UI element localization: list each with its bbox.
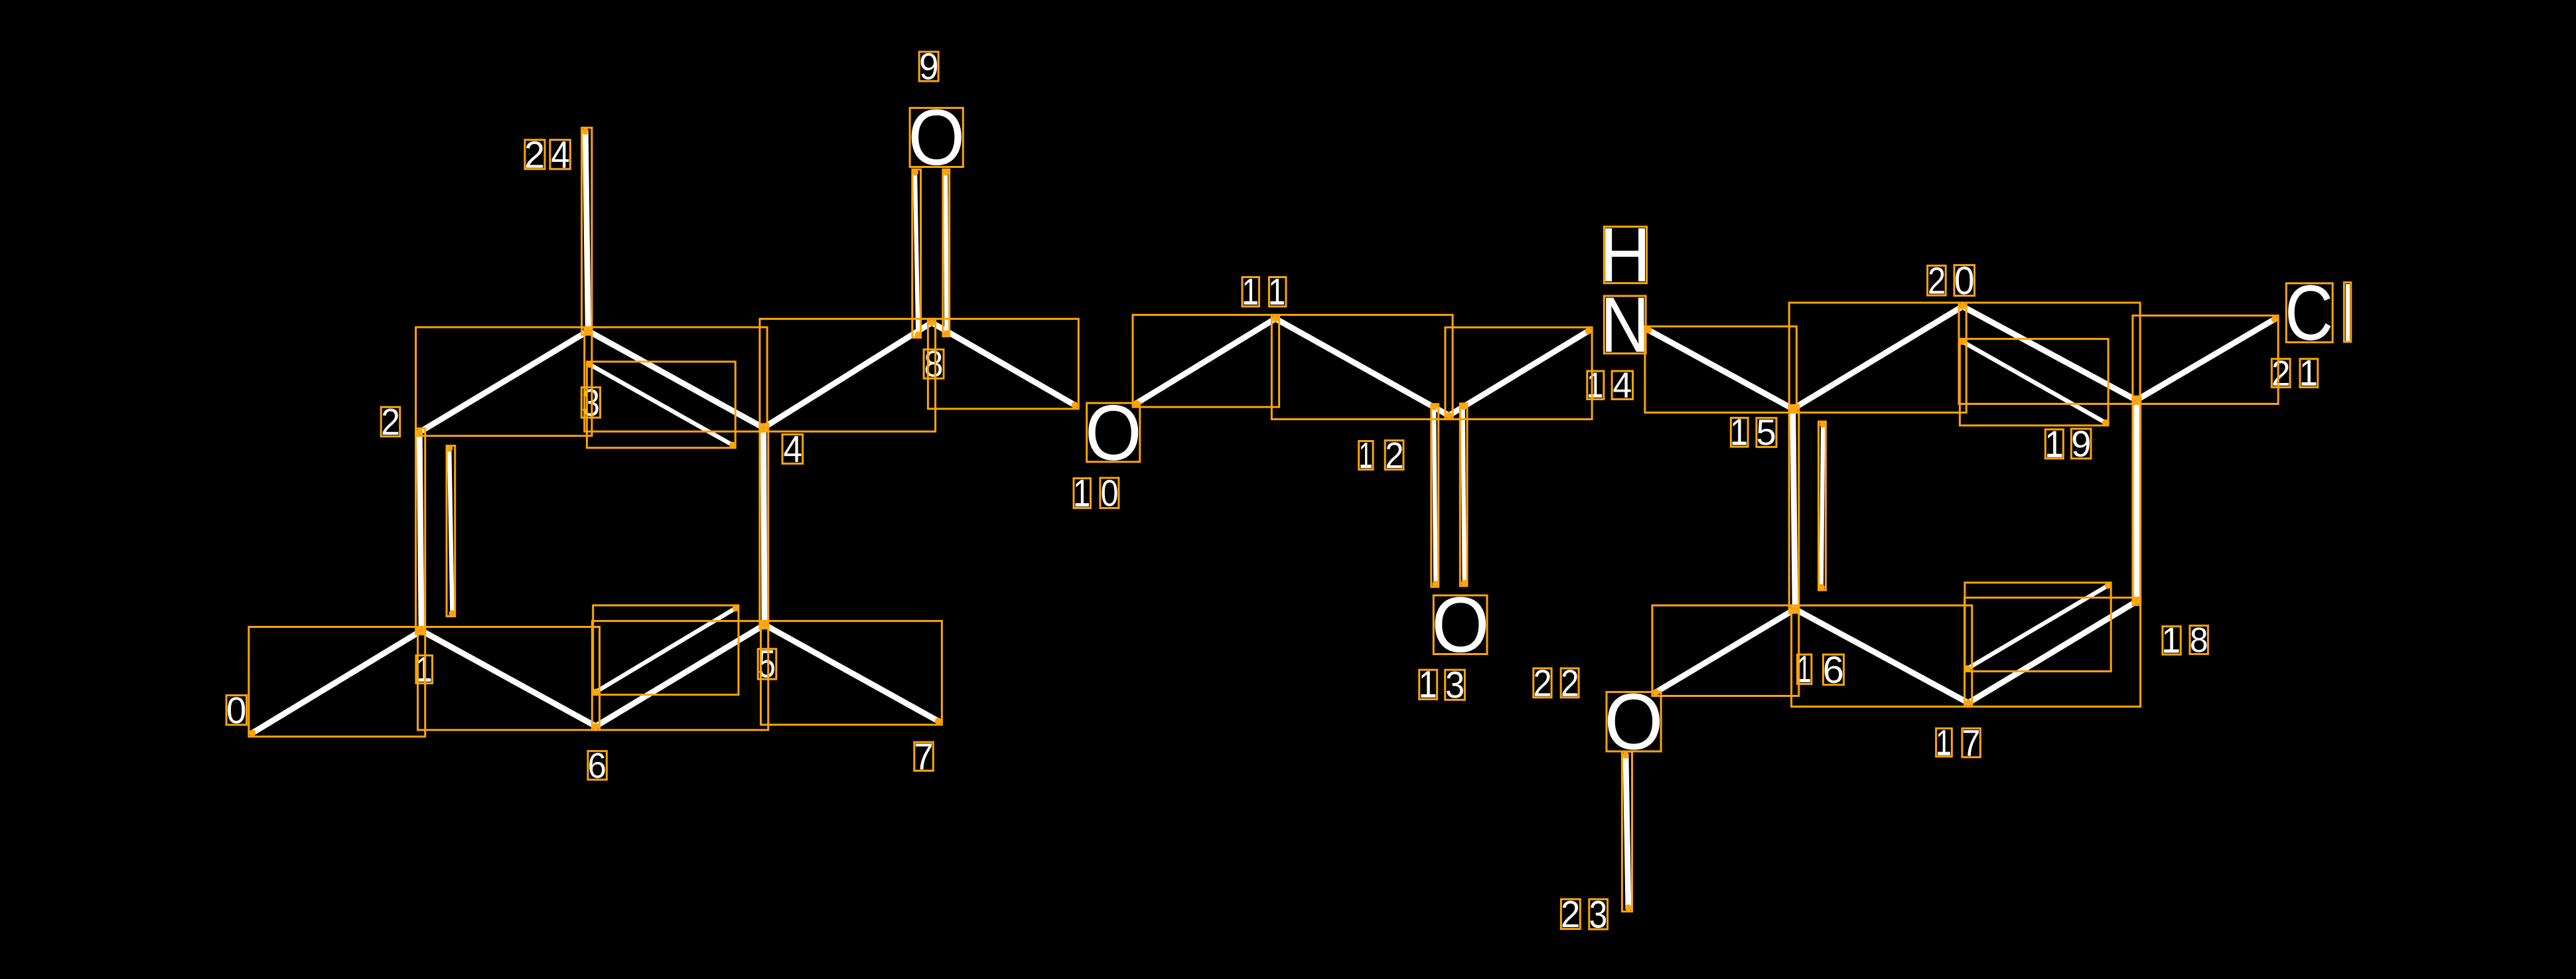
atom label O9 — [912, 110, 962, 166]
box index label 22 digit 2b — [1561, 668, 1579, 698]
box index label 19 digit 9 — [2071, 429, 2091, 459]
double bond C12=O13 line a — [1434, 407, 1436, 584]
double bond C8=O9 line b — [946, 173, 946, 334]
bbox bond C3-C24 — [582, 127, 592, 335]
aromatic inner line C3=C4 — [590, 364, 733, 445]
bond C20-C15 — [1793, 307, 1963, 409]
box index label 10 digit 0 — [1100, 478, 1119, 508]
bbox bond C19-Cl21 — [2133, 315, 2278, 404]
box index label 4 — [782, 435, 803, 464]
index label 21 digit 1 — [2302, 360, 2317, 386]
bond C5-C6 — [596, 625, 764, 726]
bond C4-C8 — [764, 323, 932, 428]
bond C16-O22 — [1656, 609, 1796, 692]
bond C3-C4 — [588, 331, 763, 428]
index label 15 digit 5 — [1758, 419, 1775, 445]
box index label 11 digit 1b — [1269, 277, 1286, 307]
index label 23 digit 3 — [1591, 901, 1607, 928]
index label 6 — [589, 753, 605, 778]
box index label 11 digit 1a — [1242, 277, 1259, 307]
index label 10 digit 1 — [1076, 480, 1090, 506]
index label 21 digit 2 — [2273, 360, 2289, 386]
index label 24 digit 4 — [551, 141, 569, 168]
bond C5-C7 — [764, 625, 938, 721]
index label 4 — [784, 436, 802, 462]
atom label C of Cl21 — [2288, 285, 2330, 340]
bbox bond C0-C1 — [249, 627, 425, 737]
index label 22 digit 2b — [1563, 670, 1578, 696]
index label 12 digit 2 — [1387, 442, 1402, 468]
box index label 14 digit 1 — [1587, 371, 1604, 400]
aromatic inner line C1=C2 — [449, 449, 452, 614]
box index label 18 digit 8 — [2190, 626, 2208, 654]
index label 19 digit 1 — [2047, 431, 2062, 457]
bond C16-C17 — [1795, 609, 1968, 703]
bbox aromatic inner line C5=C6 — [593, 605, 739, 695]
index label 10 digit 0 — [1102, 480, 1117, 506]
bbox double bond C8=O9 line a — [912, 169, 921, 337]
box index label 17 digit 1 — [1936, 728, 1952, 756]
index label 14 digit 1 — [1589, 372, 1602, 398]
bbox bond C5-C7 — [761, 621, 942, 725]
bbox bond O10-C11 — [1133, 315, 1279, 407]
index label 11 digit 1b — [1271, 279, 1285, 305]
bond N14-C15 — [1649, 330, 1793, 409]
box index label 20 digit 2 — [1928, 265, 1946, 295]
box index label 14 digit 4 — [1612, 371, 1633, 400]
bbox bond C3-C4 — [585, 327, 767, 431]
atom label O13 — [1435, 597, 1486, 652]
bbox bond C20-C15 — [1789, 303, 1966, 413]
bbox double bond C8=O9 line b — [943, 169, 950, 336]
bbox bond C1-C2 — [416, 429, 425, 635]
bbox aromatic inner line C1=C2 — [447, 446, 455, 617]
bbox aromatic inner line C17=C18 — [1965, 583, 2111, 672]
index label 18 digit 8 — [2191, 627, 2206, 652]
atom label N of HN14 — [1606, 298, 1644, 352]
bbox bond C6-C1 — [418, 627, 600, 730]
box index label 12 digit 1 — [1359, 441, 1373, 470]
bbox bond C5-C6 — [592, 621, 768, 730]
box index label 7 — [914, 742, 934, 771]
box atom label H of HN14 — [1604, 227, 1646, 283]
box index label 15 digit 1 — [1731, 418, 1748, 447]
bond C0-C1 — [253, 631, 422, 733]
box index label 5 — [758, 649, 776, 680]
bbox bond C16-C17 — [1792, 605, 1972, 707]
box index label 22 digit 2a — [1534, 668, 1551, 698]
atom label O10 — [1088, 405, 1138, 461]
box index label 24 digit 4 — [550, 140, 570, 169]
bbox bond C15-C16 — [1789, 405, 1799, 613]
bbox bond C4-C5 — [760, 424, 768, 629]
index label 16 digit 6 — [1825, 656, 1843, 684]
index label 17 digit 7 — [1964, 730, 1979, 756]
index label 5 — [759, 650, 774, 678]
atom label O22 — [1608, 694, 1660, 750]
bbox bond C2-C3 — [416, 327, 592, 436]
bond C3-C24 — [585, 131, 588, 331]
bond C4-C5 — [764, 428, 765, 625]
bond C15-C16 — [1793, 409, 1795, 609]
atom label H of HN14 — [1605, 228, 1645, 281]
bond C1-C2 — [419, 432, 421, 631]
box index label 21 digit 2 — [2271, 359, 2290, 388]
box index label 21 digit 1 — [2300, 359, 2318, 388]
atom endpoint dots — [250, 128, 2278, 911]
aromatic inner line C19=C20 — [1963, 342, 2106, 423]
bond C11-C12 — [1275, 319, 1449, 415]
index label 0 — [228, 697, 245, 723]
index label 22 digit 2a — [1535, 670, 1550, 696]
aromatic inner line C17=C18 — [1968, 585, 2108, 668]
box index label 12 digit 2 — [1385, 441, 1403, 470]
box atom label C of Cl21 — [2286, 283, 2332, 342]
box index label 2 — [381, 407, 400, 436]
box index label 24 digit 2 — [525, 140, 545, 169]
index label 12 digit 1 — [1360, 443, 1371, 468]
bbox double bond C12=O13 line b — [1460, 404, 1467, 586]
index label 15 digit 1 — [1733, 419, 1747, 445]
index label 2 — [383, 409, 399, 435]
index label 13 digit 1 — [1421, 671, 1435, 698]
index label 3 — [583, 389, 599, 416]
bbox bond N14-C15 — [1645, 327, 1797, 413]
aromatic inner line C15=C16 — [1822, 424, 1824, 587]
index label 13 digit 3 — [1447, 672, 1463, 698]
box atom label O13 — [1433, 595, 1487, 654]
box index label 3 — [581, 388, 600, 418]
box index label 19 digit 1 — [2045, 429, 2063, 459]
bbox bond C4-C8 — [760, 319, 936, 431]
index label 17 digit 1 — [1938, 730, 1950, 755]
bbox bond C8-O10 — [928, 319, 1078, 409]
bbox bond C19-C20 — [1959, 303, 2140, 404]
box atom label N of HN14 — [1604, 296, 1646, 354]
bbox aromatic inner line C3=C4 — [587, 362, 735, 448]
index label 11 digit 1a — [1244, 279, 1258, 305]
bond C18-C19 — [2133, 400, 2139, 601]
double bond C12=O13 line b — [1463, 406, 1465, 583]
bbox bond C16-O22 — [1652, 605, 1799, 696]
bond O22-C23 — [1626, 755, 1628, 908]
bond C19-Cl21 — [2137, 319, 2275, 400]
bbox aromatic inner line C19=C20 — [1960, 339, 2108, 425]
box atom label l of Cl21 — [2344, 283, 2350, 342]
bond C8-O10 — [932, 323, 1075, 405]
bond C19-C20 — [1963, 307, 2137, 400]
bond C17-C18 — [1968, 601, 2137, 703]
bbox bond C11-C12 — [1271, 315, 1453, 419]
box atom label O9 — [910, 108, 963, 167]
bond C12-N14 — [1449, 331, 1589, 415]
box index label 16 digit 6 — [1824, 654, 1844, 685]
box index label 8 — [924, 350, 944, 379]
box index label 15 digit 5 — [1756, 418, 1776, 447]
bond C2-C3 — [419, 331, 588, 432]
box atom label O22 — [1607, 692, 1661, 751]
box index label 23 digit 2 — [1561, 899, 1580, 929]
index label 18 digit 1 — [2164, 628, 2179, 653]
box index label 23 digit 3 — [1589, 899, 1608, 929]
box atom label O10 — [1087, 403, 1140, 462]
index label 20 digit 2 — [1929, 267, 1944, 294]
bbox aromatic inner line C15=C16 — [1819, 421, 1826, 590]
bond O10-C11 — [1137, 319, 1275, 404]
aromatic inner line C5=C6 — [596, 608, 736, 692]
index label 16 digit 1 — [1799, 656, 1810, 682]
box index label 17 digit 7 — [1962, 728, 1980, 757]
box index label 13 digit 1 — [1419, 670, 1437, 699]
bond C6-C1 — [421, 631, 596, 726]
box index label 9 — [919, 52, 938, 81]
index label 20 digit 0 — [1956, 266, 1973, 294]
atom label l of Cl21 — [2346, 284, 2350, 341]
box index label 13 digit 3 — [1445, 670, 1465, 700]
box index label 18 digit 1 — [2163, 627, 2181, 654]
double bond C8=O9 line a — [915, 173, 918, 335]
index label 24 digit 2 — [526, 141, 543, 168]
box index label 6 — [588, 751, 607, 780]
bbox double bond C12=O13 line a — [1431, 404, 1439, 587]
bbox bond C18-C19 — [2133, 396, 2141, 605]
index label 19 digit 9 — [2073, 431, 2090, 457]
box index label 0 — [226, 696, 247, 725]
index label 8 — [926, 350, 942, 376]
bbox bond C12-N14 — [1445, 327, 1592, 419]
index label 7 — [916, 743, 932, 769]
box index label 16 digit 1 — [1798, 654, 1812, 684]
index label 14 digit 4 — [1614, 372, 1631, 398]
box index label 20 digit 0 — [1954, 265, 1975, 295]
box index label 1 — [416, 656, 433, 684]
index label 23 digit 2 — [1563, 901, 1579, 927]
bbox bond C17-C18 — [1965, 597, 2141, 706]
index label 1 — [417, 657, 431, 682]
box index label 10 digit 1 — [1074, 479, 1091, 508]
bbox bond O22-C23 — [1622, 751, 1632, 911]
index label 9 — [921, 53, 938, 80]
